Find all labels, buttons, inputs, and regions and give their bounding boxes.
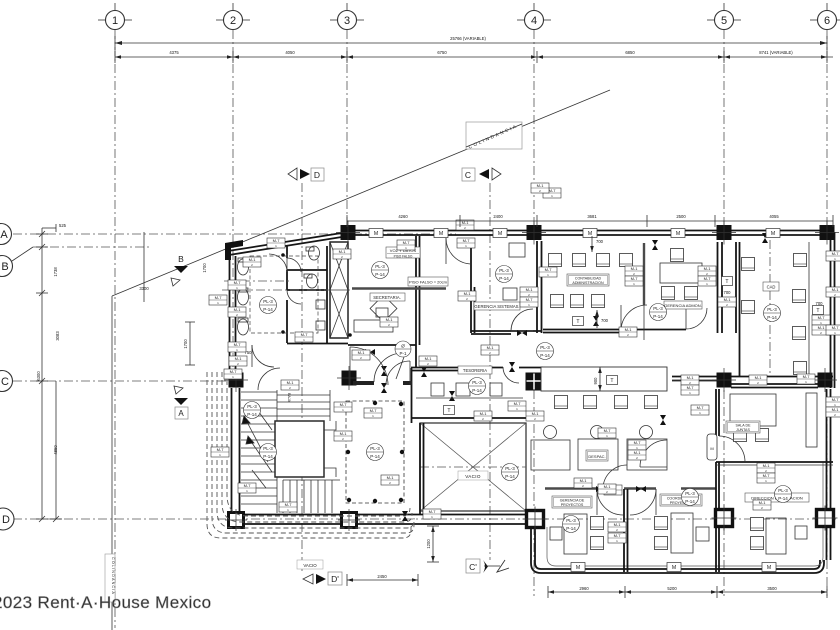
svg-text:C: C [1,376,9,388]
dashed void rect with dots [346,401,404,503]
cad room chairs [794,254,807,267]
svg-text:B: B [178,254,184,264]
row line C [0,371,232,392]
svg-text:4260: 4260 [398,214,408,219]
PL circle labels [372,262,389,279]
M boxes on top wall [369,229,383,238]
svg-text:2500: 2500 [676,214,686,219]
second dim line 4850 [55,381,57,519]
door voz y datos [446,238,472,264]
secretaria diamond desk [354,295,397,332]
nested dashed offset lines [207,372,414,538]
stair block bottom wall to vacio [244,515,530,525]
colindancia vertical label box bottom [105,554,115,602]
svg-text:SALA DE: SALA DE [736,424,752,428]
room label: cad [763,282,779,291]
left wall of vacio [420,423,424,514]
grid line 4 [517,3,551,596]
column 5D with cross [712,506,737,531]
svg-text:6750: 6750 [437,50,447,55]
door stair to corridor [258,368,280,390]
sala juntas top walls remnant [672,380,718,382]
svg-text:2: 2 [230,15,236,27]
long counter [541,367,667,391]
svg-text:GERENCIA ADMON.: GERENCIA ADMON. [664,303,702,308]
column 3A [336,221,360,245]
svg-text:4055: 4055 [769,214,779,219]
partition x625 bottom band [624,489,628,572]
grid line 3 [330,3,364,231]
bottom wall gerencia sistemas y331 [471,331,541,334]
cad dashed line [769,240,771,374]
svg-text:CONTABILIDAD: CONTABILIDAD [575,277,602,281]
svg-text:C: C [465,170,471,180]
room label: contabilidad [567,274,609,286]
bottom wall contabilidad y329 [543,330,686,333]
door gerencia admon [621,305,647,331]
525 bracket [42,227,56,229]
stair top flight treads [277,390,330,421]
svg-text:A: A [178,409,184,418]
column 5C [712,368,736,392]
svg-text:25766 (VARIABLE): 25766 (VARIABLE) [450,36,486,41]
despacho label [586,450,608,461]
bathroom toilets left column [238,258,249,335]
wall under col4 x537 [537,241,542,333]
svg-text:4: 4 [531,15,537,27]
column 6C [813,368,837,392]
svg-text:C': C' [469,562,477,572]
door contabilidad [686,308,707,329]
vacio big square [420,423,526,511]
svg-text:JUNTAS: JUNTAS [736,428,750,432]
svg-text:4050: 4050 [285,50,295,55]
vacio label under stairs [297,560,323,569]
room2 desk [655,513,710,553]
column 5A [712,221,736,245]
svg-text:B: B [1,261,8,273]
column stair NW [224,368,248,392]
column 6D with cross [813,506,838,531]
svg-text:3083: 3083 [55,331,60,341]
left vertical dim line [41,228,43,519]
door gerencia sistemas [511,309,533,331]
corridor wall x417 [416,236,420,368]
door corridor arc2 [386,361,410,385]
room label: gerencia proyectos [552,496,592,508]
svg-text:DESPAC.: DESPAC. [588,454,605,459]
svg-text:M: M [710,446,713,451]
wall above vacio [411,417,530,419]
svg-text:5200: 5200 [667,586,677,591]
colindancia label box rotated [466,122,522,150]
tesoreria top wall y368 [411,368,543,371]
colindancia property line [105,90,610,630]
right wall lower band [827,389,831,560]
grid line 6 [810,3,840,596]
svg-text:1: 1 [112,15,118,27]
A marker [174,386,188,419]
svg-text:1200: 1200 [426,539,431,549]
scattered M-1/M-7 small boxes [228,280,246,290]
overall dim line [115,36,827,50]
svg-text:CAD: CAD [767,285,776,290]
svg-text:PROYECTOS: PROYECTOS [561,503,584,507]
svg-text:GERENCIA DE: GERENCIA DE [560,499,585,503]
svg-text:D: D [2,514,10,526]
right exterior wall upper band [831,232,835,388]
door sala juntas y462 [603,465,627,489]
svg-text:SECRETARIA.: SECRETARIA. [373,295,401,300]
slanted top-left wall [228,232,348,255]
door bathroom top [269,254,287,272]
sala juntas table [730,393,817,447]
left exterior wall of bathroom block [230,250,236,385]
stools [544,426,653,439]
svg-text:1700: 1700 [183,339,188,349]
wc stall walls [287,246,348,344]
wall y462 dir operacion top [716,462,833,465]
room1 desk [550,514,604,554]
svg-text:6850: 6850 [625,50,635,55]
stall doors [287,258,301,272]
svg-text:COLINDANCIA: COLINDANCIA [111,557,115,595]
corner column top-left [225,240,243,260]
open office chairs row [555,396,568,409]
corridor bowties [381,366,387,376]
stair left flight treads [241,390,277,513]
T boxes [722,277,733,286]
svg-text:700: 700 [601,318,609,323]
bathroom sinks top [304,246,325,330]
svg-text:3: 3 [344,15,350,27]
room label: voz y datos [386,247,420,259]
stair bottom flight treads [283,480,340,513]
svg-text:1738: 1738 [53,267,58,277]
1700 dim near building [189,322,191,365]
gerencia admon left wall x644 [643,243,645,340]
svg-text:D: D [314,170,320,180]
svg-text:5: 5 [721,15,727,27]
section line C-C' [489,183,491,560]
svg-text:4850: 4850 [53,445,58,455]
column 4D with cross [523,507,548,532]
svg-text:2400: 2400 [493,214,503,219]
svg-text:A: A [0,229,8,241]
room label: direccion operacion [745,493,809,502]
door open office to corridor [640,440,667,467]
svg-text:525: 525 [59,223,67,228]
room label: sala de juntas [726,421,760,433]
room3 desk [751,518,808,555]
B marker [171,254,188,286]
svg-text:8741 (VARIABLE): 8741 (VARIABLE) [759,50,793,55]
svg-text:ADMINISTRACION: ADMINISTRACION [572,281,604,285]
svg-text:PISO FALSO: PISO FALSO [394,255,413,259]
upper band dim line y222 [347,214,833,227]
700 dims [590,236,603,252]
junction dots [281,253,285,257]
svg-text:TESORERIA: TESORERIA [463,368,487,373]
2450 dim [347,574,418,586]
row line D [0,508,836,530]
secretaria bottom wall y345 [348,344,416,346]
tesoreria left wall [411,368,413,423]
room label: piso falso [408,277,448,286]
elevator shaft [330,242,348,338]
svg-text:700: 700 [724,290,732,295]
stair block left wall [232,388,240,513]
door bathroom mid [252,345,274,367]
svg-text:D': D' [331,574,339,584]
row line B [0,247,150,277]
column 4C hatched [526,373,542,390]
svg-text:700: 700 [596,239,604,244]
gerencia sistemas desks [503,243,525,300]
room label: gerencia sistemas [474,302,520,310]
partition x716 middle right [716,389,719,572]
svg-text:3681: 3681 [587,214,597,219]
room label: secretaria [370,293,405,301]
section markers [171,168,509,585]
svg-text:VACIO: VACIO [303,563,317,568]
grid line 5 [707,3,741,596]
corridor bottom wall y383 [353,381,412,385]
svg-text:VACIO: VACIO [465,474,481,479]
segment dim line [115,50,833,63]
contabilidad chairs row1 [549,254,633,267]
grid line 1 [98,3,132,628]
open office desks [531,439,667,470]
bottom band outer rounded wall [531,462,824,573]
column stair SW [225,509,247,531]
bathroom dashed floor zone [250,256,318,333]
tesoreria small tables [416,383,523,398]
room label: coordinacion [660,494,702,506]
svg-text:Ø: Ø [401,344,405,349]
svg-text:BAJA: BAJA [287,393,291,403]
door bowties [421,367,427,377]
svg-text:2450: 2450 [377,574,387,579]
svg-text:900: 900 [593,377,598,385]
P-1 circle label [395,341,411,357]
1200 dim [426,526,439,562]
svg-text:PISO FALSO = 20cm: PISO FALSO = 20cm [409,280,448,285]
svg-text:2960: 2960 [579,586,589,591]
stair landing square [275,421,336,477]
column 4A [522,221,546,245]
voz y datos room small table [376,308,388,317]
room label: tesoreria [458,366,492,374]
column stair NE [337,366,361,390]
svg-text:GERENCIA SISTEMAS.: GERENCIA SISTEMAS. [474,304,519,309]
bottom dims [548,586,827,598]
top wall of upper band [347,231,833,236]
wall on line C right part [672,377,833,388]
section line D-D' [301,183,303,572]
doors bottom corridor pair [597,489,656,515]
column stair SE [338,509,360,531]
M boxes on bottom wall [571,563,585,572]
gerencia admon desk [660,249,702,300]
svg-text:4375: 4375 [169,50,179,55]
svg-text:3500: 3500 [767,586,777,591]
corridor wall y488 bottom band top [545,487,716,489]
stair direction arrows [242,408,272,488]
svg-text:2023 Rent·A·House Mexico: 2023 Rent·A·House Mexico [0,593,211,612]
partition x472 gerencia sistemas [471,242,475,333]
contabilidad chairs row2 [551,295,564,308]
door corridor y383 [374,353,404,382]
grid line 2 [216,3,250,372]
svg-text:700: 700 [816,301,824,306]
wall below piso falso [352,287,446,289]
svg-text:6: 6 [824,15,830,27]
door tesoreria [503,367,519,383]
room label: gerencia admon [664,301,702,309]
door corridor big arc [350,347,388,385]
column 6A [815,221,839,245]
row line A [0,224,456,245]
svg-text:1700: 1700 [202,263,207,273]
duct walls x717-738 [718,242,740,376]
svg-text:P-1: P-1 [399,351,407,356]
svg-text:6300: 6300 [36,371,41,381]
door direccion [707,434,745,462]
